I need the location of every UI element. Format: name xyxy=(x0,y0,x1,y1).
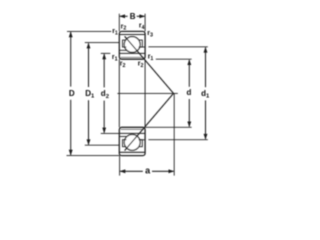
bearing top outer-ring line xyxy=(120,34,146,36)
wire B extension left xyxy=(118,14,120,32)
pressure line top xyxy=(125,36,174,93)
wire d1 extension bottom xyxy=(148,139,207,141)
svg-text:D1: D1 xyxy=(85,89,95,100)
wire a extension right xyxy=(173,93,175,175)
svg-text:r2: r2 xyxy=(121,23,127,31)
wire d2 extension bottom xyxy=(101,132,120,134)
wire d2 extension top xyxy=(101,52,111,54)
dimension d2 xyxy=(103,54,105,87)
bearing bottom inner-ring line xyxy=(120,132,146,134)
svg-text:r2: r2 xyxy=(138,61,144,69)
dimension a xyxy=(120,170,143,172)
wire D1 extension bottom xyxy=(85,144,120,146)
wire left face bore connector xyxy=(118,59,120,127)
bearing top bore inner line xyxy=(121,56,144,58)
svg-text:r1: r1 xyxy=(112,28,118,36)
svg-text:D: D xyxy=(69,89,75,98)
cage top-right bracket xyxy=(139,40,143,47)
bearing bottom outer-ring line xyxy=(120,151,146,153)
svg-text:r1: r1 xyxy=(148,54,154,62)
bearing bottom bore inner line xyxy=(121,128,144,130)
ball top xyxy=(124,37,140,53)
svg-text:d: d xyxy=(187,88,192,97)
bearing top section outline xyxy=(119,31,145,59)
svg-text:B: B xyxy=(130,12,136,21)
wire right face bore connector xyxy=(144,59,146,127)
svg-text:r3: r3 xyxy=(147,30,153,38)
cage bottom-right bracket xyxy=(139,140,143,147)
dimension B xyxy=(120,15,128,17)
ball bottom xyxy=(124,135,140,151)
wire d1 extension top xyxy=(148,46,207,48)
svg-text:r2: r2 xyxy=(120,61,126,69)
wire B extension right xyxy=(144,14,146,32)
axis line xyxy=(117,92,177,94)
dimension D xyxy=(70,32,72,87)
cage bottom-left bracket xyxy=(123,140,127,147)
wire D extension top xyxy=(67,30,111,32)
bearing top right shoulder line xyxy=(140,46,145,48)
dimension d1 xyxy=(205,48,207,88)
cage top-left bracket xyxy=(123,40,127,47)
dimension D1 xyxy=(88,43,90,87)
bearing top left shoulder line xyxy=(120,49,127,51)
bearing bottom section outline xyxy=(119,127,145,155)
bearing bottom left shoulder line xyxy=(120,136,127,138)
wire D extension bottom xyxy=(67,155,120,157)
wire d extension top xyxy=(156,58,192,60)
svg-text:a: a xyxy=(145,166,151,176)
pressure line bottom xyxy=(125,93,174,150)
svg-text:d1: d1 xyxy=(201,89,210,100)
svg-text:r1: r1 xyxy=(112,54,118,62)
dimension d xyxy=(188,60,190,87)
wire d extension bottom xyxy=(145,126,192,128)
bearing bottom right shoulder line xyxy=(140,139,145,141)
wire D1 extension top xyxy=(85,42,120,44)
bearing top inner-ring line xyxy=(120,52,146,54)
wire a extension left xyxy=(119,156,121,176)
svg-text:d2: d2 xyxy=(101,89,109,100)
svg-text:r4: r4 xyxy=(139,23,145,31)
